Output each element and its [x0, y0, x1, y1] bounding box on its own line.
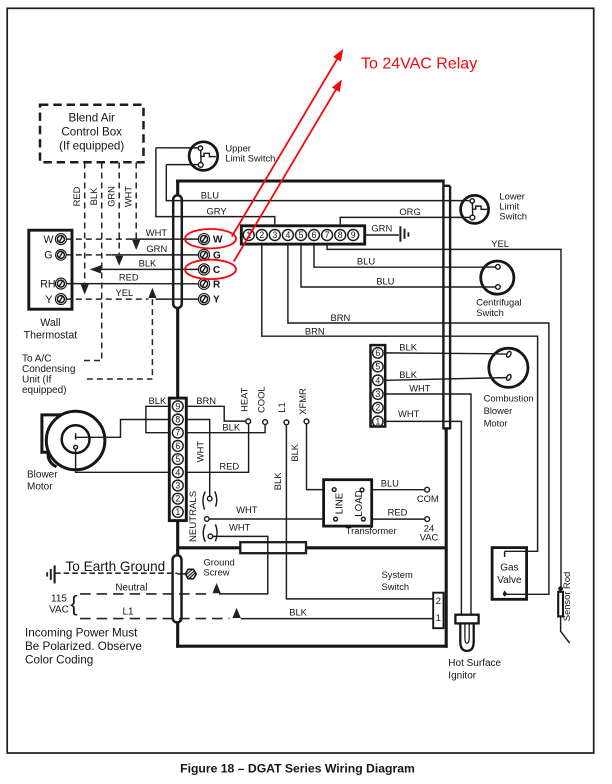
- blend air lead RED (dashed): [84, 163, 86, 284]
- red highlight ellipse around terminal C: [185, 260, 236, 279]
- svg-text:RED: RED: [71, 186, 82, 206]
- COOL tap terminal: [263, 420, 268, 425]
- svg-text:1: 1: [436, 613, 441, 624]
- furnace cabinet bottom wall: [176, 645, 447, 648]
- wire YEL (TB1 terminal 7 to sensor rod): [327, 244, 561, 588]
- svg-text:BLU: BLU: [357, 256, 375, 267]
- svg-text:9: 9: [175, 401, 180, 411]
- wire GRN row G (thermostat to terminal G): [66, 254, 112, 256]
- wire BLK jumper (TB2 terminal 9 to terminal 7): [146, 406, 169, 432]
- to A/C condensing note and dashed leads: [22, 299, 152, 396]
- wire BLK (XFMR tap to transformer line): [307, 424, 333, 490]
- svg-text:LINE: LINE: [334, 492, 345, 514]
- wire BLU upper (upper limit to lower limit): [166, 165, 459, 201]
- svg-text:BLK: BLK: [289, 606, 307, 617]
- svg-text:L1: L1: [276, 402, 287, 412]
- svg-text:GRN: GRN: [371, 222, 392, 233]
- furnace cabinet right wall (double line upper): [442, 180, 444, 429]
- svg-text:Motor: Motor: [27, 482, 53, 493]
- red arrow from C to 24VAC relay note: [234, 87, 337, 261]
- furnace cabinet top wall: [176, 179, 445, 182]
- svg-text:9: 9: [351, 230, 356, 240]
- svg-text:BRN: BRN: [196, 395, 216, 406]
- svg-text:BLK: BLK: [399, 341, 417, 352]
- svg-text:NEUTRALS: NEUTRALS: [188, 491, 199, 542]
- svg-text:Switch: Switch: [476, 307, 504, 318]
- svg-text:Neutral: Neutral: [115, 582, 147, 593]
- svg-text:Condensing: Condensing: [22, 364, 75, 375]
- combustion blower motor: [484, 348, 534, 428]
- svg-text:ORG: ORG: [399, 206, 420, 217]
- terminal R with screw: [198, 278, 209, 289]
- svg-text:6: 6: [175, 441, 180, 451]
- ground screw: [177, 557, 235, 579]
- svg-text:Blower: Blower: [27, 470, 58, 481]
- svg-text:BLU: BLU: [376, 276, 394, 287]
- wire BLK (L1 tap to system switch 2): [286, 425, 433, 599]
- svg-text:BLU: BLU: [381, 477, 399, 488]
- svg-text:Thermostat: Thermostat: [24, 329, 78, 341]
- blower motor lead to TB2 terminal 8: [76, 420, 169, 438]
- svg-text:Control Box: Control Box: [61, 126, 122, 139]
- terminal Y with screw: [198, 294, 209, 305]
- svg-text:Hot Surface: Hot Surface: [448, 658, 501, 669]
- svg-text:WHT: WHT: [195, 441, 206, 463]
- svg-text:3: 3: [175, 481, 180, 491]
- gas valve: [492, 548, 528, 600]
- svg-text:WHT: WHT: [123, 186, 134, 208]
- wire WHT (TB2 terminal 8 to neutral switch): [186, 420, 209, 497]
- svg-text:VAC: VAC: [49, 605, 69, 616]
- wire BLK (TB2 terminal 7 to COOL tap): [186, 424, 265, 433]
- svg-text:G: G: [44, 250, 52, 262]
- chassis ground symbol: [399, 226, 401, 241]
- red highlight ellipse around terminal W: [185, 229, 236, 248]
- wire RED (transformer load to 24 VAC): [365, 518, 425, 520]
- svg-text:Blend Air: Blend Air: [68, 112, 115, 125]
- svg-text:RED: RED: [119, 271, 139, 282]
- wire BLU (TB1 terminal 5 to centrifugal switch): [301, 244, 481, 287]
- svg-text:System: System: [382, 569, 413, 580]
- svg-text:Motor: Motor: [484, 418, 508, 429]
- wire WHT row W (thermostat to terminal W): [66, 238, 130, 240]
- blend air control box: [40, 105, 144, 163]
- svg-text:Figure 18 – DGAT Series Wiring: Figure 18 – DGAT Series Wiring Diagram: [180, 761, 415, 775]
- wire BLK (incoming L1 to system switch 1): [241, 618, 434, 620]
- blower motor (scroll housing): [46, 411, 105, 470]
- svg-text:BRN: BRN: [305, 325, 325, 336]
- svg-text:WHT: WHT: [398, 408, 420, 419]
- svg-text:6: 6: [375, 348, 380, 358]
- svg-text:WHT: WHT: [236, 504, 258, 515]
- svg-text:L1: L1: [123, 606, 135, 617]
- wire YEL row Y (thermostat Y to terminal Y, dashed then solid): [66, 298, 149, 300]
- svg-text:COM: COM: [417, 493, 439, 504]
- svg-text:BLK: BLK: [272, 472, 283, 490]
- svg-text:HEAT: HEAT: [239, 387, 250, 412]
- blower motor lead to TB2 terminal 4: [76, 449, 170, 472]
- svg-text:Switch: Switch: [382, 581, 410, 592]
- terminal C with screw: [198, 264, 209, 275]
- svg-text:GRN: GRN: [146, 243, 167, 254]
- wall thermostat: [24, 230, 78, 341]
- svg-text:Color Coding: Color Coding: [25, 654, 93, 667]
- svg-text:BLK: BLK: [88, 187, 99, 205]
- svg-text:BLK: BLK: [149, 395, 167, 406]
- svg-text:VAC: VAC: [420, 532, 439, 543]
- svg-text:WHT: WHT: [146, 227, 168, 238]
- svg-text:BLK: BLK: [399, 369, 417, 380]
- svg-text:LOAD: LOAD: [354, 490, 365, 516]
- svg-text:6: 6: [312, 230, 317, 240]
- wire RED row R (thermostat RH to terminal R): [66, 283, 200, 285]
- svg-text:4: 4: [285, 230, 290, 240]
- svg-text:7: 7: [325, 230, 330, 240]
- svg-text:RED: RED: [388, 507, 408, 518]
- svg-text:To Earth Ground: To Earth Ground: [66, 559, 166, 574]
- sensor rod: [558, 572, 572, 643]
- hot surface ignitor: [448, 615, 501, 682]
- internal divider wall: [178, 546, 445, 549]
- svg-text:3: 3: [272, 230, 277, 240]
- svg-text:Combustion: Combustion: [484, 393, 534, 404]
- blend air lead BLK (dashed, continues to A/C note): [101, 163, 103, 361]
- svg-text:W: W: [44, 234, 54, 246]
- svg-text:Wall: Wall: [40, 317, 60, 329]
- incoming power note: [25, 627, 142, 667]
- svg-text:R: R: [213, 279, 221, 290]
- blend air lead GRN (dashed): [118, 163, 120, 255]
- terminal G with screw: [198, 249, 209, 260]
- furnace cabinet right wall (lower thick): [445, 428, 448, 647]
- svg-text:Blower: Blower: [484, 405, 513, 416]
- upper limit switch: [156, 142, 276, 171]
- svg-text:YEL: YEL: [116, 287, 134, 298]
- svg-text:Gas: Gas: [500, 562, 518, 573]
- svg-text:2: 2: [375, 403, 380, 413]
- svg-text:BLU: BLU: [201, 190, 219, 201]
- svg-text:8: 8: [338, 230, 343, 240]
- wire BLK (TB3 terminal 6 to combustion motor): [385, 352, 489, 355]
- svg-text:W: W: [213, 235, 223, 246]
- terminal board TB3 (vertical, terminals 6-1, combustion blower): [371, 345, 386, 426]
- neutrals interlock switch: [188, 491, 217, 542]
- svg-text:7: 7: [175, 428, 180, 438]
- 24 VAC terminal: [425, 517, 430, 522]
- wire BLK row C (arrow to terminal C): [101, 268, 200, 270]
- svg-text:115: 115: [51, 594, 67, 605]
- to earth ground: [47, 559, 177, 584]
- svg-text:BLK: BLK: [222, 421, 240, 432]
- terminal board TB1 (horizontal, terminals 1-9): [241, 226, 364, 244]
- wire BLU (transformer load to COM): [364, 489, 425, 491]
- svg-text:3: 3: [375, 389, 380, 399]
- wire ORG (TB1 terminal 8 to lower limit): [340, 217, 459, 224]
- L1 tap terminal: [284, 420, 289, 425]
- svg-text:1: 1: [175, 507, 180, 517]
- svg-text:XFMR: XFMR: [297, 388, 308, 415]
- blower motor inner hub: [62, 425, 90, 453]
- svg-text:To 24VAC Relay: To 24VAC Relay: [361, 56, 477, 73]
- wire BRN (TB2 terminal 9 to HEAT tap): [186, 406, 246, 421]
- svg-text:BLK: BLK: [289, 443, 300, 461]
- svg-text:2: 2: [259, 230, 264, 240]
- svg-text:RH: RH: [40, 278, 55, 290]
- blend air lead WHT (dashed): [135, 163, 137, 239]
- wire WHT (neutral switch to transformer line): [209, 518, 334, 520]
- lower limit switch: [458, 191, 527, 224]
- svg-text:WHT: WHT: [409, 382, 431, 393]
- svg-text:5: 5: [375, 362, 380, 372]
- svg-text:GRY: GRY: [207, 206, 228, 217]
- svg-text:BLK: BLK: [139, 258, 157, 269]
- svg-text:Be Polarized. Observe: Be Polarized. Observe: [25, 640, 142, 653]
- wire WHT (TB3 terminal 1 to ignitor): [385, 421, 461, 614]
- svg-text:COOL: COOL: [256, 386, 267, 413]
- svg-text:Screw: Screw: [204, 567, 230, 578]
- svg-text:Sensor Rod: Sensor Rod: [561, 572, 572, 622]
- svg-text:equipped): equipped): [22, 385, 66, 396]
- bushing capsule lower (power entry): [173, 555, 182, 622]
- transformer: [324, 480, 397, 536]
- svg-text:Ignitor: Ignitor: [448, 671, 476, 682]
- furnace cabinet left wall: [176, 180, 179, 648]
- svg-text:4: 4: [375, 375, 380, 385]
- wire GRY (upper limit to TB1 terminal 3): [156, 148, 275, 225]
- svg-text:4: 4: [175, 467, 180, 477]
- wire BLU (TB1 terminal 6 to centrifugal switch): [314, 244, 481, 267]
- svg-text:GRN: GRN: [106, 186, 117, 207]
- HEAT tap terminal: [246, 419, 251, 424]
- svg-text:C: C: [213, 265, 220, 276]
- svg-text:2: 2: [436, 596, 441, 607]
- svg-text:RED: RED: [219, 461, 239, 472]
- svg-text:(If equipped): (If equipped): [59, 140, 124, 153]
- svg-text:2: 2: [175, 494, 180, 504]
- svg-text:To A/C: To A/C: [22, 354, 51, 365]
- svg-text:5: 5: [175, 454, 180, 464]
- wire WHT (neutral switch to incoming neutral): [213, 536, 268, 594]
- wire RED (TB2 terminal 4 to HEAT tap): [186, 424, 248, 473]
- COM terminal: [425, 487, 430, 492]
- svg-text:YEL: YEL: [491, 238, 509, 249]
- wire BLK (TB3 terminal 4 to combustion motor): [385, 378, 489, 380]
- system switch: [382, 569, 444, 628]
- red arrow from W to 24VAC relay note: [232, 57, 339, 237]
- wire GRN (TB1 terminal 9 to chassis ground): [365, 234, 399, 236]
- svg-text:Unit (If: Unit (If: [22, 375, 52, 386]
- svg-text:Y: Y: [213, 295, 220, 306]
- svg-text:8: 8: [175, 415, 180, 425]
- incoming 115 VAC: [49, 582, 241, 618]
- svg-text:Incoming Power Must: Incoming Power Must: [25, 627, 138, 640]
- wire BRN (TB1 terminal 2 to gas valve upper): [262, 244, 538, 551]
- svg-text:5: 5: [299, 230, 304, 240]
- centrifugal switch: [476, 261, 521, 318]
- XFMR tap terminal: [304, 419, 309, 424]
- terminal W with screw: [198, 234, 209, 245]
- svg-text:Y: Y: [45, 294, 52, 306]
- svg-text:{: {: [70, 591, 77, 616]
- svg-text:BRN: BRN: [331, 312, 351, 323]
- wire WHT (TB3 terminal 3 to ignitor): [385, 394, 471, 615]
- svg-text:Limit Switch: Limit Switch: [225, 153, 275, 164]
- svg-text:Transformer: Transformer: [346, 525, 397, 536]
- splice block on divider: [240, 542, 306, 553]
- svg-text:WHT: WHT: [229, 521, 251, 532]
- bushing capsule upper (thermostat lead entry): [173, 195, 182, 308]
- svg-text:Switch: Switch: [499, 210, 527, 221]
- terminal board TB2 (vertical, terminals 9-1, blower): [169, 398, 186, 520]
- svg-text:1: 1: [375, 416, 380, 426]
- wire BRN (TB1 terminal 4 to gas valve lower): [288, 244, 549, 594]
- svg-text:Valve: Valve: [497, 575, 522, 586]
